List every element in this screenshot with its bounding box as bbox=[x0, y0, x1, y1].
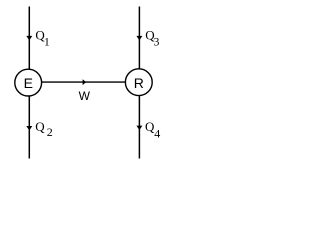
svg-text:E: E bbox=[24, 75, 33, 91]
svg-text:3: 3 bbox=[154, 36, 160, 48]
svg-text:4: 4 bbox=[154, 126, 160, 140]
svg-text:W: W bbox=[79, 89, 91, 103]
svg-text:R: R bbox=[134, 75, 144, 91]
svg-text:Q: Q bbox=[35, 119, 45, 134]
svg-text:1: 1 bbox=[44, 37, 50, 49]
svg-text:2: 2 bbox=[47, 125, 53, 139]
